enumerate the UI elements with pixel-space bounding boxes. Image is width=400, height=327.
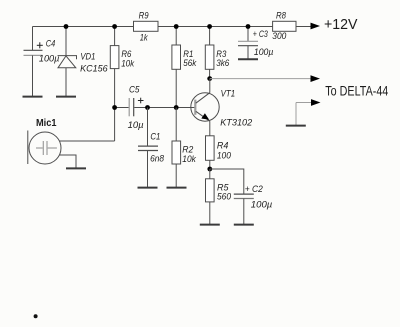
svg-text:R9: R9: [139, 10, 150, 21]
svg-text:3k6: 3k6: [216, 58, 230, 69]
node R6/R9 top: [112, 24, 117, 29]
wire output to DELTA-44: [210, 78, 311, 80]
resistor R3 3k6: [205, 27, 230, 79]
svg-text:C4: C4: [46, 39, 56, 50]
svg-text:C1: C1: [150, 131, 160, 142]
ground (R2): [167, 187, 187, 189]
svg-text:100µ: 100µ: [39, 54, 60, 65]
node collector junction: [207, 76, 212, 81]
svg-text:VD1: VD1: [80, 52, 95, 63]
svg-text:10µ: 10µ: [128, 120, 145, 131]
node R3 top: [207, 24, 212, 29]
svg-text:To DELTA-44: To DELTA-44: [325, 83, 388, 98]
svg-text:100µ: 100µ: [251, 200, 273, 211]
ground (R5): [200, 224, 220, 226]
capacitor C4: [24, 27, 60, 97]
svg-text:KC156: KC156: [80, 63, 108, 74]
resistor R4 100: [206, 136, 232, 169]
svg-text:100µ: 100µ: [254, 47, 274, 58]
svg-text:+ C3: + C3: [253, 29, 269, 40]
microphone Mic1: [28, 117, 61, 164]
capacitor C1 6n8: [138, 108, 165, 188]
svg-text:560: 560: [217, 192, 232, 203]
capacitor C3: [238, 27, 274, 60]
wire top supply rail: [33, 26, 312, 28]
node C5/C1 junction: [145, 105, 150, 110]
wire emitter to C2: [210, 169, 244, 194]
ground (C1): [138, 187, 158, 189]
ground (C2): [234, 224, 254, 226]
zener diode VD1 KC156: [58, 27, 109, 97]
resistor R9 1k: [134, 10, 159, 43]
svg-text:1k: 1k: [140, 32, 149, 43]
capacitor C2: [234, 184, 273, 224]
arrow To DELTA-44: [311, 75, 389, 98]
svg-text:C5: C5: [129, 85, 140, 96]
ground (C3): [238, 58, 258, 60]
svg-text:KT3102: KT3102: [220, 118, 253, 129]
svg-text:VT1: VT1: [221, 88, 236, 99]
node R1/R2 base junction: [174, 105, 179, 110]
svg-text:6n8: 6n8: [150, 153, 165, 164]
node R6/C5/Mic1 junction: [112, 105, 117, 110]
svg-text:R8: R8: [276, 11, 287, 22]
stray dot mark: [34, 314, 38, 318]
svg-text:+12V: +12V: [324, 16, 358, 33]
svg-text:100: 100: [217, 150, 232, 161]
svg-text:+ C2: + C2: [245, 184, 264, 195]
svg-text:300: 300: [272, 31, 287, 42]
resistor R6 10k: [110, 27, 135, 142]
svg-text:56k: 56k: [183, 58, 197, 69]
node R1 top: [174, 24, 179, 29]
arrow ground return (second output pin): [296, 99, 321, 126]
resistor R8 300: [272, 11, 296, 42]
node C3 top: [246, 24, 251, 29]
wire mic ground leg: [60, 155, 77, 168]
ground (VD1): [56, 96, 76, 98]
wire mic output: [60, 140, 115, 142]
resistor R2 10k: [172, 108, 197, 188]
ground (Mic1): [66, 167, 86, 169]
resistor R1 56k: [172, 27, 197, 108]
node emitter R4/R5 junction: [207, 167, 212, 172]
svg-text:10k: 10k: [121, 58, 135, 69]
resistor R5 560: [206, 169, 232, 224]
svg-text:10k: 10k: [182, 154, 197, 165]
capacitor C5 10u: [115, 85, 195, 132]
ground (output): [286, 125, 306, 127]
arrow +12V: [311, 16, 358, 33]
svg-text:Mic1: Mic1: [36, 117, 57, 129]
transistor VT1 KT3102: [191, 79, 253, 136]
ground (C4): [23, 96, 43, 98]
node VD1 top: [64, 24, 69, 29]
